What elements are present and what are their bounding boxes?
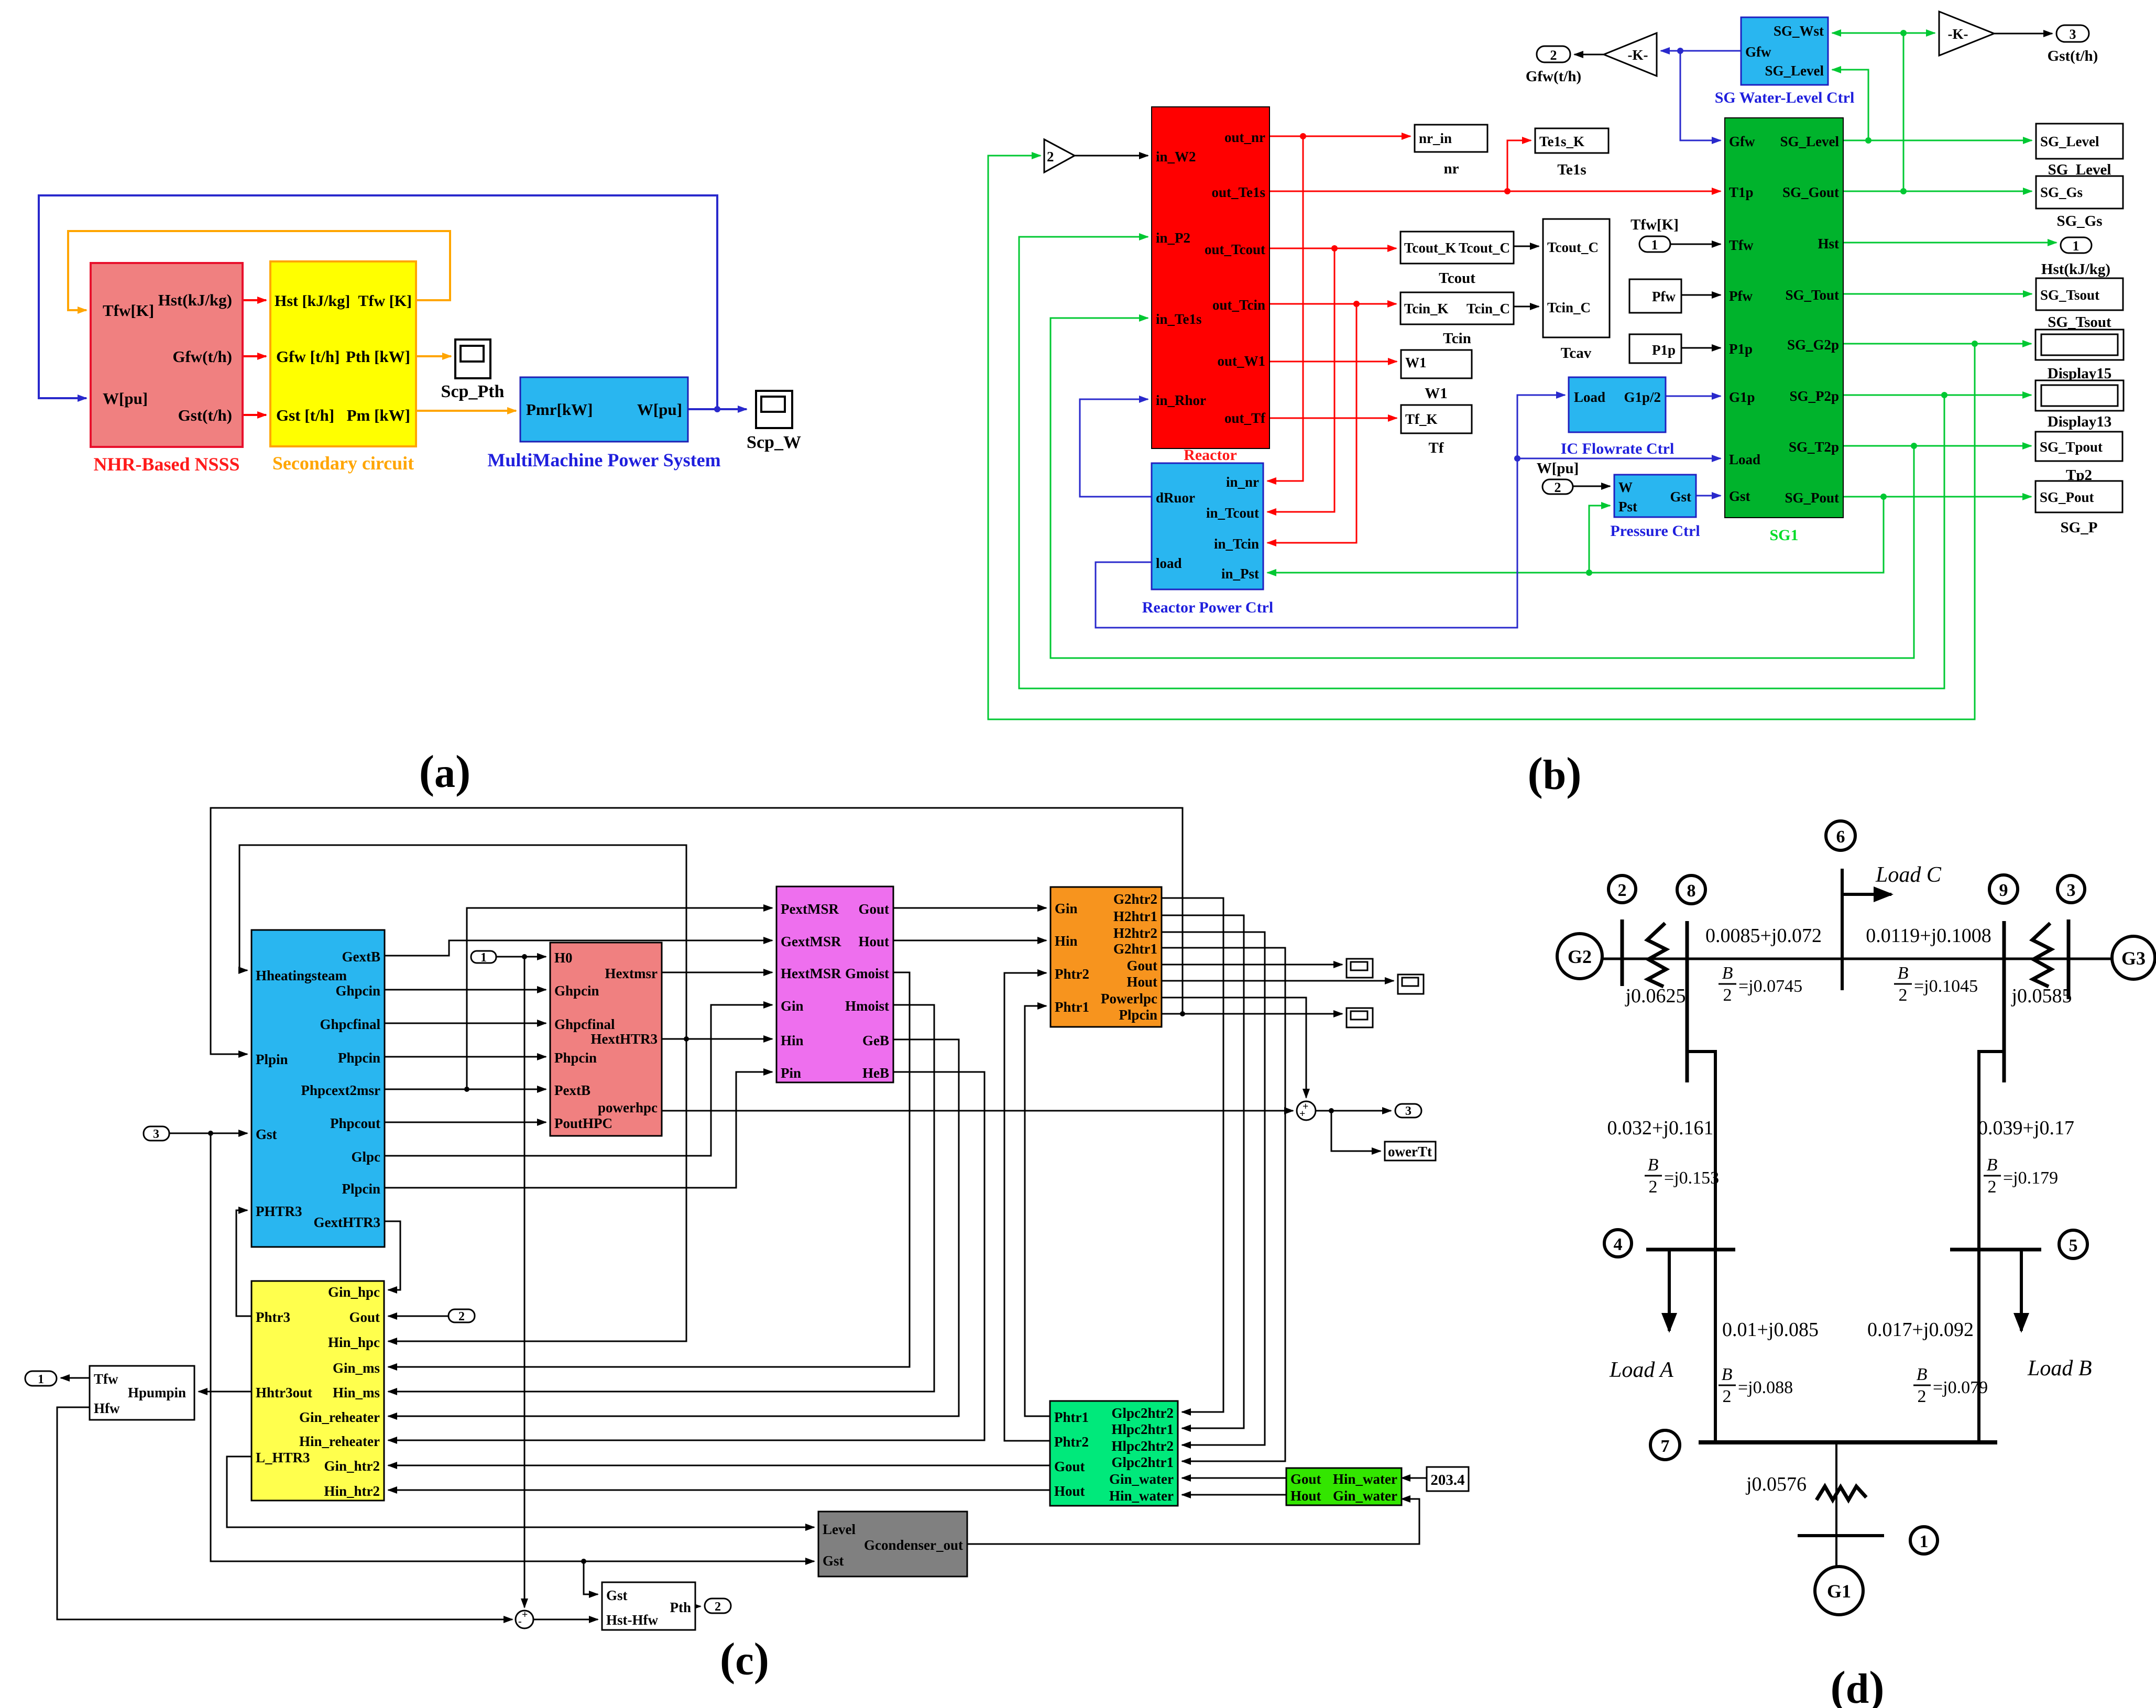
wire black left -K- gain -> outport 2 Gfw(t/h)	[1574, 54, 1604, 56]
node circle 9	[1989, 875, 2018, 903]
svg-text:P1p: P1p	[1729, 341, 1753, 357]
svg-text:PHTR3: PHTR3	[256, 1203, 302, 1219]
svg-text:Reactor Power Ctrl: Reactor Power Ctrl	[1142, 599, 1273, 616]
svg-text:2: 2	[1899, 986, 1908, 1005]
wire G2htr2 -> green Glpc2htr2	[1162, 898, 1223, 1412]
svg-text:Tcout_C: Tcout_C	[1459, 240, 1510, 256]
wire Pm orange Secondary->MultiMachine	[416, 410, 516, 412]
wire bright green Hout -> green Hin_water	[1182, 1494, 1286, 1496]
panel label (a)	[419, 747, 471, 797]
svg-text:Load B: Load B	[2027, 1356, 2092, 1381]
svg-text:Phpcin: Phpcin	[338, 1050, 380, 1066]
svg-text:Load: Load	[1574, 389, 1605, 405]
svg-text:j0.0585: j0.0585	[2010, 985, 2072, 1007]
svg-text:Pfw: Pfw	[1652, 289, 1676, 304]
wire red out_nr -> nr_in and RPC in_nr	[1267, 133, 1410, 481]
svg-text:Hst: Hst	[1818, 236, 1840, 251]
svg-text:out_Tf: out_Tf	[1224, 410, 1266, 426]
svg-text:Pin: Pin	[781, 1065, 801, 1081]
svg-text:Hout: Hout	[1126, 974, 1157, 990]
label line 5-7 impedance	[1867, 1319, 1974, 1341]
block nr_in	[1415, 125, 1487, 177]
display SG_Pout	[2035, 481, 2122, 536]
svg-text:in_Rhor: in_Rhor	[1156, 392, 1206, 408]
wire green Gout -> yellow Gin_htr2	[388, 1465, 1050, 1466]
svg-text:B: B	[1722, 964, 1733, 983]
wire black inport Tfw[K] -> SG1 Tfw	[1670, 244, 1721, 245]
wire black Tcin_K -> Tcav	[1514, 306, 1539, 308]
svg-text:Hin_ms: Hin_ms	[333, 1385, 380, 1400]
line 9-5 jog and conductor	[1979, 1052, 2004, 1442]
generator G3	[2112, 936, 2155, 979]
constant 203.4	[1427, 1467, 1469, 1491]
panel label (c)	[720, 1634, 769, 1685]
bus 3 bar	[2067, 919, 2071, 999]
wire Phpcin blue->salmon	[385, 1056, 546, 1058]
svg-text:SG_Level: SG_Level	[2040, 134, 2099, 149]
svg-text:G1p/2: G1p/2	[1624, 389, 1661, 405]
wire Ghpcin blue->salmon	[385, 989, 546, 991]
svg-text:Gmoist: Gmoist	[845, 966, 889, 981]
svg-text:SG_Pout: SG_Pout	[1785, 490, 1839, 506]
line 8-4 jog and conductor	[1687, 1052, 1715, 1442]
wire sum1 -> outport 3 and PowerTt	[1316, 1108, 1391, 1151]
svg-text:Phtr2: Phtr2	[1054, 1434, 1089, 1450]
wire orange Hout -> scope c2	[1162, 980, 1394, 982]
svg-text:in_Tcout: in_Tcout	[1206, 505, 1259, 521]
svg-text:Gst: Gst	[823, 1553, 844, 1569]
transformer T2 zigzag	[1647, 923, 1666, 987]
svg-text:Tfw[K]: Tfw[K]	[1630, 216, 1679, 233]
svg-text:in_Pst: in_Pst	[1221, 566, 1259, 582]
svg-text:Gout: Gout	[858, 901, 889, 917]
svg-text:GeB: GeB	[862, 1033, 889, 1048]
scope c2	[1398, 975, 1424, 994]
svg-text:Gin_water: Gin_water	[1109, 1471, 1174, 1487]
block P1p	[1629, 334, 1681, 363]
wire red out_Tf -> Tf_K	[1269, 418, 1397, 419]
svg-text:Ghpcfinal: Ghpcfinal	[554, 1016, 615, 1032]
svg-text:Hout: Hout	[858, 934, 889, 949]
wire Glpc -> magenta Gin	[385, 1005, 772, 1156]
wire blue dRuor -> in_Rhor	[1080, 399, 1152, 497]
svg-text:=j0.1045: =j0.1045	[1914, 977, 1978, 996]
wire Pth orange Secondary->Scp_Pth	[416, 355, 451, 357]
svg-text:Hin_htr2: Hin_htr2	[324, 1483, 380, 1499]
svg-text:Pm [kW]: Pm [kW]	[347, 406, 410, 424]
wire inport 2 -> yellow Gout	[388, 1316, 448, 1317]
inport oval 1 (c)	[471, 951, 496, 965]
svg-text:SG_Level: SG_Level	[1765, 63, 1824, 79]
svg-text:Tcav: Tcav	[1561, 345, 1592, 362]
bus 8 bar	[1686, 921, 1689, 1082]
svg-text:dRuor: dRuor	[1156, 490, 1195, 506]
svg-text:2: 2	[1555, 480, 1561, 495]
svg-text:2: 2	[715, 1600, 721, 1614]
transformer T3 zigzag	[2032, 923, 2051, 987]
block Gcondenser_out	[818, 1512, 967, 1576]
wire green SG_P2p feedback -> in_P2	[1019, 237, 2031, 688]
svg-text:Gout: Gout	[1126, 958, 1157, 973]
svg-text:Load: Load	[1729, 452, 1760, 467]
svg-text:2: 2	[1618, 881, 1627, 900]
svg-text:=j0.179: =j0.179	[2003, 1168, 2058, 1188]
svg-text:nr_in: nr_in	[1419, 130, 1452, 146]
wire Plpcin loop orange block -> scope3 and blue Plpin	[211, 808, 1342, 1054]
svg-text:203.4: 203.4	[1430, 1472, 1464, 1488]
scope Scp_Pth	[441, 340, 505, 401]
svg-text:Tfw: Tfw	[1729, 237, 1754, 253]
bus 2 bar	[1621, 919, 1624, 986]
svg-text:Phtr1: Phtr1	[1054, 1409, 1089, 1425]
svg-text:P1p: P1p	[1652, 342, 1676, 358]
wire green SG_Level -> display and SG Water-Level Ctrl	[1832, 70, 2032, 144]
inport oval 2 (c)	[448, 1309, 475, 1323]
svg-text:Gst: Gst	[1670, 489, 1692, 505]
label B/2=j0.1045 fraction	[1894, 964, 1978, 1005]
svg-text:Hpumpin: Hpumpin	[128, 1385, 186, 1400]
svg-text:Hst [kJ/kg]: Hst [kJ/kg]	[275, 292, 350, 310]
label j0.0576	[1745, 1473, 1807, 1495]
wire Gfw red NHR->Secondary	[243, 355, 266, 357]
label line 4-7 impedance	[1722, 1319, 1819, 1341]
svg-text:B: B	[1648, 1155, 1659, 1175]
svg-text:SG1: SG1	[1769, 527, 1798, 544]
scope Scp_W	[747, 391, 801, 452]
svg-text:Hin_reheater: Hin_reheater	[299, 1433, 380, 1449]
svg-text:G2htr1: G2htr1	[1113, 941, 1157, 957]
outport oval 2 Gfw(t/h)	[1526, 46, 1581, 85]
svg-text:H2htr2: H2htr2	[1113, 925, 1157, 941]
svg-text:Hhtr3out: Hhtr3out	[256, 1385, 312, 1400]
svg-text:HextMSR: HextMSR	[781, 966, 841, 981]
svg-text:Tfw[K]: Tfw[K]	[103, 301, 154, 320]
svg-text:1: 1	[1920, 1532, 1929, 1551]
svg-text:Gfw: Gfw	[1745, 44, 1771, 60]
block Te1s_K	[1535, 128, 1608, 178]
svg-text:Tcin: Tcin	[1443, 330, 1471, 347]
wire inport 1 H0 and sum Hst branch	[496, 954, 546, 1607]
svg-text:W1: W1	[1425, 385, 1448, 402]
svg-text:MultiMachine Power System: MultiMachine Power System	[487, 450, 720, 470]
sum1 circle	[1297, 1101, 1316, 1120]
svg-text:Glpc: Glpc	[351, 1149, 380, 1165]
svg-text:SG_Tpout: SG_Tpout	[2040, 439, 2103, 455]
svg-text:SG_Tsout: SG_Tsout	[2040, 287, 2099, 303]
svg-text:2: 2	[1988, 1177, 1997, 1197]
svg-text:+: +	[522, 1609, 528, 1621]
svg-text:Gfw(t/h): Gfw(t/h)	[172, 347, 232, 366]
bus 4 bar	[1646, 1248, 1735, 1252]
label line 8-6 impedance	[1705, 925, 1822, 947]
wire Powerlpc -> sum1 top	[1162, 998, 1306, 1098]
svg-text:Gst: Gst	[256, 1126, 277, 1142]
svg-text:Tcout: Tcout	[1439, 270, 1475, 287]
svg-text:Secondary circuit: Secondary circuit	[272, 453, 414, 474]
block SG Water-Level Ctrl	[1715, 17, 1855, 106]
wire Gcondenser_out -> bright green Gin_water	[967, 1499, 1419, 1544]
transformer T1 zigzag	[1816, 1486, 1866, 1500]
wire blue IC Flowrate Ctrl G1p/2 -> SG1 G1p	[1666, 396, 1721, 397]
svg-text:Display13: Display13	[2048, 413, 2111, 430]
svg-text:nr: nr	[1444, 160, 1459, 177]
block Hpumpin	[90, 1366, 194, 1420]
block Pth calc	[602, 1582, 695, 1630]
wire black Tcout_K -> Tcav	[1514, 246, 1539, 247]
svg-text:Tfw [K]: Tfw [K]	[358, 292, 412, 310]
svg-text:B: B	[1987, 1155, 1998, 1175]
svg-text:out_W1: out_W1	[1217, 353, 1265, 369]
display Display15	[2035, 330, 2124, 382]
wire yellow Phtr3 -> blue PHTR3	[236, 1210, 251, 1316]
bus 9 bar	[2002, 921, 2006, 1082]
svg-text:B: B	[1722, 1365, 1733, 1384]
wire sum2 -> Pth block Hst-Hfw	[533, 1619, 598, 1621]
scope c3	[1347, 1008, 1373, 1027]
wire Gmoist -> yellow Gin_ms	[388, 972, 910, 1367]
gain 2 triangle	[1044, 139, 1075, 172]
svg-text:Phpcext2msr: Phpcext2msr	[301, 1082, 380, 1098]
svg-text:Gout: Gout	[1290, 1471, 1321, 1487]
svg-text:Scp_Pth: Scp_Pth	[441, 382, 505, 401]
svg-text:SG_Pout: SG_Pout	[2040, 489, 2094, 505]
svg-text:Gcondenser_out: Gcondenser_out	[864, 1537, 963, 1553]
svg-text:Hextmsr: Hextmsr	[605, 966, 658, 981]
svg-text:1: 1	[38, 1373, 44, 1386]
wire Hpumpin Hfw -> sum2	[57, 1407, 512, 1619]
svg-text:HextHTR3: HextHTR3	[591, 1031, 658, 1047]
label line 8-4 impedance	[1607, 1117, 1714, 1139]
wire blue SGWLC Gfw -> gain -K- and SG1 Gfw	[1661, 48, 1741, 140]
svg-text:in_Tcin: in_Tcin	[1214, 536, 1259, 552]
svg-text:2: 2	[1918, 1387, 1927, 1406]
wire Gst red NHR->Secondary	[243, 414, 266, 416]
svg-text:Gin_water: Gin_water	[1333, 1488, 1397, 1504]
svg-text:6: 6	[1836, 827, 1845, 847]
svg-text:-K-: -K-	[1948, 26, 1968, 42]
svg-text:4: 4	[1614, 1235, 1623, 1254]
wire magenta Gout -> orange Gin	[893, 907, 1046, 909]
wire black gain 2 -> in_W2	[1075, 155, 1148, 157]
svg-text:Hmoist: Hmoist	[845, 998, 889, 1014]
wire G2htr1 -> green Glpc2htr1	[1162, 948, 1285, 1461]
svg-text:3: 3	[2070, 27, 2076, 42]
svg-text:PextMSR: PextMSR	[781, 901, 839, 917]
wire Hmoist -> yellow Hin_ms	[388, 1005, 934, 1392]
svg-text:Gfw: Gfw	[1729, 134, 1755, 149]
svg-text:Phpcin: Phpcin	[554, 1050, 597, 1066]
svg-text:0.0119+j0.1008: 0.0119+j0.1008	[1866, 925, 1991, 947]
wire powerhpc -> sum1	[662, 1110, 1293, 1112]
block Reactor Power Ctrl	[1142, 463, 1273, 616]
svg-text:GextHTR3: GextHTR3	[314, 1214, 381, 1230]
block SG1	[1725, 118, 1843, 544]
svg-text:3: 3	[2067, 881, 2076, 900]
wire Pth -> outport 2	[695, 1606, 701, 1607]
svg-text:(c): (c)	[720, 1634, 769, 1685]
svg-text:-K-: -K-	[1628, 47, 1648, 63]
svg-text:=j0.088: =j0.088	[1738, 1378, 1793, 1397]
svg-text:Powerlpc: Powerlpc	[1101, 991, 1157, 1006]
block Tcav	[1543, 219, 1610, 362]
svg-text:2: 2	[1649, 1177, 1658, 1197]
wire Plpcin blue -> magenta Pin	[385, 1072, 772, 1188]
svg-text:Hin: Hin	[781, 1033, 804, 1048]
wire black right -K- gain -> outport 3 Gst(t/h)	[1994, 33, 2052, 35]
block Pfw	[1629, 279, 1681, 313]
block W1	[1401, 350, 1472, 402]
wire green SG_Tout -> SG_Tsout display	[1843, 293, 2032, 295]
main transmission line bus2-bus3	[1602, 958, 2113, 960]
bus 5 bar	[1950, 1248, 2041, 1252]
svg-text:Reactor: Reactor	[1184, 446, 1237, 464]
bus 6 bar	[1841, 869, 1844, 990]
svg-text:SG_Gout: SG_Gout	[1782, 184, 1839, 200]
wire Hpumpin Tfw -> outport 1	[61, 1377, 90, 1379]
svg-text:-: -	[518, 1616, 522, 1627]
bus 1 bar	[1798, 1534, 1884, 1537]
svg-text:Load A: Load A	[1609, 1358, 1673, 1382]
display SG_Gs	[2036, 176, 2123, 229]
inport oval 3 (c)	[144, 1126, 169, 1141]
svg-text:Pfw: Pfw	[1729, 288, 1753, 304]
svg-text:W[pu]: W[pu]	[103, 389, 148, 408]
generator G1	[1815, 1567, 1863, 1615]
svg-text:SG Water-Level Ctrl: SG Water-Level Ctrl	[1715, 89, 1855, 106]
svg-text:Hlpc2htr1: Hlpc2htr1	[1112, 1421, 1174, 1437]
svg-text:Tf: Tf	[1429, 440, 1444, 456]
svg-text:7: 7	[1661, 1437, 1670, 1456]
wire H2htr2 -> green Hlpc2htr2	[1162, 932, 1265, 1445]
Load C arrow	[1842, 863, 1942, 894]
svg-text:out_nr: out_nr	[1224, 129, 1265, 145]
wire green Phtr1 -> orange Phtr1	[1025, 1006, 1050, 1416]
svg-text:Tcout_K: Tcout_K	[1404, 240, 1457, 256]
wire HextHTR3 -> magenta Hin, Hheatingsteam, yellow Hin_hpc	[239, 845, 772, 1341]
svg-text:G2htr2: G2htr2	[1113, 891, 1157, 907]
wire Hextmsr -> magenta HextMSR	[662, 972, 772, 973]
svg-text:Phtr3: Phtr3	[256, 1309, 290, 1325]
svg-text:Gst [t/h]: Gst [t/h]	[276, 406, 334, 424]
svg-text:Tcin_C: Tcin_C	[1547, 300, 1591, 315]
svg-text:GextB: GextB	[342, 949, 381, 965]
svg-text:PextB: PextB	[554, 1082, 590, 1098]
wire GextB -> magenta GextMSR	[385, 940, 772, 956]
svg-text:SG_Level: SG_Level	[1780, 134, 1840, 149]
block Reactor	[1152, 107, 1269, 464]
display SG_Tpout	[2035, 432, 2122, 484]
svg-text:SG_Gs: SG_Gs	[2040, 184, 2083, 200]
display Display13	[2035, 380, 2124, 430]
block salmon HPC	[550, 943, 662, 1136]
svg-text:Scp_W: Scp_W	[747, 433, 801, 452]
label B/2=j0.153 fraction	[1645, 1155, 1719, 1197]
wire constant 203.4 -> bright green Hin_water	[1402, 1477, 1427, 1479]
svg-text:Te1s_K: Te1s_K	[1539, 134, 1584, 149]
display SG_Tsout	[2036, 278, 2123, 331]
svg-text:Gin_hpc: Gin_hpc	[328, 1284, 380, 1300]
svg-text:2: 2	[458, 1310, 465, 1323]
wire green Hout -> yellow Hin_htr2	[388, 1490, 1050, 1491]
svg-text:Display15: Display15	[2048, 365, 2111, 382]
node circle 6	[1826, 821, 1855, 850]
wire Tfw[K] orange feedback loop Secondary->NHR	[68, 231, 450, 310]
wire green SG_Gout -> SG_Gs display, SG_Wst, -K- gain	[1832, 30, 2032, 194]
wire green Hst -> outport 1	[1843, 242, 2056, 244]
wire red out_Tcout -> Tcout block and RPC in_Tcout	[1267, 245, 1396, 512]
node circle 4	[1604, 1230, 1632, 1257]
svg-text:Tcin_K: Tcin_K	[1404, 301, 1449, 316]
wire W[pu] blue feedback loop MultiMachine->NHR	[39, 195, 747, 412]
svg-text:Tcin_C: Tcin_C	[1466, 301, 1510, 316]
svg-text:(d): (d)	[1830, 1662, 1884, 1708]
svg-text:Pth [kW]: Pth [kW]	[346, 347, 410, 366]
wire yellow Hhtr3out -> Hpumpin	[199, 1391, 251, 1393]
scope c1	[1347, 959, 1373, 978]
svg-text:3: 3	[153, 1127, 159, 1141]
wire Phpcext2msr -> salmon PextB and magenta PextMSR	[385, 908, 772, 1092]
wire green SG_G2p feedback -> gain2 -> in_W2	[988, 156, 2031, 719]
svg-text:SG_Tsout: SG_Tsout	[2048, 314, 2111, 331]
svg-text:out_Tcout: out_Tcout	[1205, 242, 1265, 257]
svg-text:Gin: Gin	[1055, 901, 1078, 916]
svg-text:SG_P2p: SG_P2p	[1789, 388, 1839, 404]
svg-text:(a): (a)	[419, 747, 471, 797]
svg-text:Tfw: Tfw	[94, 1371, 118, 1387]
node circle 2	[1608, 875, 1636, 903]
svg-text:out_Te1s: out_Te1s	[1211, 184, 1265, 200]
svg-text:1: 1	[1651, 237, 1658, 253]
svg-text:G1p: G1p	[1729, 389, 1755, 405]
svg-text:load: load	[1156, 555, 1182, 571]
svg-text:Phtr2: Phtr2	[1055, 966, 1089, 982]
wire blue Pressure Ctrl Gst -> SG1 Gst	[1696, 495, 1721, 497]
outport oval 2 (c)	[705, 1598, 731, 1614]
label line 9-5 impedance	[1978, 1117, 2074, 1139]
svg-text:Level: Level	[823, 1521, 856, 1537]
label B/2=j0.179 fraction	[1984, 1155, 2058, 1197]
svg-text:G2: G2	[1568, 946, 1592, 967]
svg-text:Gin_htr2: Gin_htr2	[324, 1458, 380, 1474]
svg-text:Gout: Gout	[1054, 1459, 1085, 1474]
svg-text:PoutHPC: PoutHPC	[554, 1115, 612, 1131]
block bright green condenser water	[1286, 1468, 1402, 1505]
svg-text:Gfw [t/h]: Gfw [t/h]	[276, 347, 340, 366]
svg-text:G1: G1	[1827, 1581, 1851, 1602]
svg-text:5: 5	[2069, 1236, 2078, 1255]
svg-text:Pressure Ctrl: Pressure Ctrl	[1610, 522, 1700, 540]
wire GeB -> yellow Gin_reheater	[388, 1039, 959, 1416]
svg-text:(b): (b)	[1527, 749, 1581, 800]
display SG_Level	[2036, 124, 2123, 178]
svg-text:in_nr: in_nr	[1226, 474, 1259, 490]
block NHR-Based NSSS	[91, 263, 243, 475]
svg-text:0.039+j0.17: 0.039+j0.17	[1978, 1117, 2074, 1139]
outport oval 3 (c)	[1395, 1104, 1421, 1118]
svg-text:Te1s: Te1s	[1557, 161, 1586, 178]
block Tf	[1401, 405, 1472, 456]
gain -K- left (Gfw)	[1604, 33, 1657, 76]
svg-text:Phpcout: Phpcout	[330, 1115, 380, 1131]
svg-text:Hin_hpc: Hin_hpc	[328, 1334, 380, 1350]
svg-text:0.032+j0.161: 0.032+j0.161	[1607, 1117, 1714, 1139]
label B/2=j0.0745 fraction	[1719, 964, 1802, 1005]
svg-text:powerhpc: powerhpc	[598, 1100, 658, 1115]
svg-text:2: 2	[1550, 48, 1557, 63]
svg-text:GextMSR: GextMSR	[781, 934, 841, 949]
svg-text:Pth: Pth	[670, 1600, 692, 1615]
svg-text:G3: G3	[2121, 948, 2146, 969]
